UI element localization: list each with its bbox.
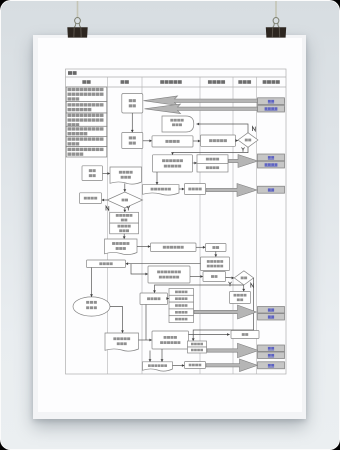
document 员工离职通知 (final)	[143, 362, 173, 371]
process box 经理会讨论	[201, 135, 236, 146]
process box 交接顺利可办理离职审批手续	[148, 266, 190, 283]
wire 人事审批 to checklist stack	[166, 297, 169, 300]
header 员工	[82, 80, 90, 84]
wire ellipse to 部门经理书面意见	[110, 307, 124, 334]
wire 人事审批 down	[145, 305, 147, 341]
process box 退条	[231, 331, 259, 339]
wire 发出辞退文件 to 社保停缴 stack	[193, 162, 198, 165]
process box 驳回申请	[80, 193, 102, 204]
label N (decision 2)	[106, 206, 109, 210]
wire decision N branch to 终止并通知部门	[197, 123, 249, 133]
document 员工离职通知	[143, 185, 180, 195]
fat arrow from related process link 1 into 辞退员工	[144, 96, 285, 106]
related process link 社保3 (blue)	[258, 345, 285, 352]
process box 相关部门核算	[230, 292, 251, 304]
wire 会签 to decision 3	[226, 276, 235, 279]
process box 处理意见	[152, 136, 193, 147]
fat arrow to link 档案	[206, 184, 257, 197]
binder clip right: hanging string	[275, 0, 277, 18]
wire decision Y branch down to 发出辞退文件	[171, 147, 248, 155]
wire 交接顺利 to 会签	[190, 275, 203, 278]
wire 申请表 down to decision 2	[123, 184, 126, 192]
decision diamond 审批 (resignation approval)	[107, 192, 143, 208]
reason cell 3 (员工 column)	[66, 113, 107, 126]
fat arrow from related process link 2 into 辞退员工	[145, 104, 285, 114]
document 员工离职期预告表	[105, 239, 138, 255]
header 总经理	[238, 80, 251, 84]
white paper sheet	[38, 38, 302, 413]
fat arrow to link 档案 (final)	[206, 359, 258, 372]
related process link 档案 (blue)	[258, 186, 285, 193]
label Y (decision 3)	[229, 282, 232, 286]
reason cell 2 (员工 column)	[66, 102, 107, 114]
wire 离职通知 to 记入档案 (final)	[173, 364, 185, 367]
wire decision3 down to 相关部门核算	[242, 285, 245, 292]
wire stack down to 预告表	[123, 234, 126, 239]
reason cell 6 (员工 column)	[66, 147, 107, 157]
process box 记入档案 (final)	[185, 362, 206, 369]
wire 书面意见 to 处理意见	[143, 139, 152, 142]
reason cell 4 (员工 column)	[66, 126, 107, 136]
stack 社保停缴 / 计发补偿金	[197, 155, 228, 172]
header 关联流程	[263, 80, 280, 84]
wire 工作交接 down to ellipse	[90, 268, 93, 297]
reason cell 1 (员工 column)	[66, 87, 107, 102]
label Y (decision 1)	[242, 147, 245, 151]
process box 书面意见	[122, 133, 143, 149]
label Y (decision 2)	[127, 206, 130, 210]
wire decision2 N to 驳回申请	[102, 199, 108, 202]
wire 预告表 to 发布离职报告	[137, 245, 151, 248]
wire decision2 Y down to 工作交接单 stack	[123, 208, 126, 212]
wire 书面意见 down to 离职通知	[149, 351, 152, 362]
wire 签署意见 down to 离职通知	[161, 349, 164, 362]
decision diamond 审批 (manager approval)	[238, 133, 258, 148]
paper backing sheet	[33, 35, 306, 419]
process box 签署意见离职审批手续	[152, 331, 189, 349]
related process link 结算流程 (blue)	[258, 105, 285, 112]
ellipse 交接中第30日	[73, 297, 110, 316]
wire 辞退员工 to 书面意见	[131, 113, 134, 133]
wire 员工离职通知 to 记入档案	[179, 188, 185, 191]
wire 员工辞职 to 员工离职申请表	[103, 172, 111, 175]
stack 社保停缴/档案调出/离职面谈/结算薪金/服装收回	[169, 289, 194, 323]
header 行政人事部	[160, 80, 182, 84]
fat arrow to links 社保/工资	[229, 155, 259, 168]
stack 拟定工作交接单 / 提前通知工作日	[110, 212, 139, 234]
wire 通知 down to 若有协办部门	[214, 252, 217, 258]
process box 若有协办部门时则通知	[201, 257, 230, 271]
wire decision3 N right-down to lower row	[192, 278, 254, 341]
wire 签署意见 to 退条	[189, 333, 230, 336]
related process link 社保 (blue)	[258, 154, 285, 161]
process box 发出辞退文件并送达员工	[153, 155, 193, 172]
process box 人事审批	[140, 293, 168, 305]
label N (decision 3)	[251, 283, 254, 287]
document 员工离职申请表	[110, 167, 142, 184]
header 部门	[121, 80, 129, 84]
process box 通知	[206, 244, 227, 252]
title text 离职	[68, 71, 77, 75]
fat arrow to links 社保/工资 (HR settle)	[194, 305, 257, 319]
reason cell 5 (员工 column)	[66, 136, 107, 146]
decision diamond 审批 (countersign approval)	[234, 271, 253, 285]
table outer border and title row 离职	[66, 69, 287, 374]
wire 书面意见 to 签署意见	[139, 339, 153, 342]
wire 经理会讨论 to decision 1	[235, 139, 238, 142]
wire decision3 Y left to 人事审批	[153, 285, 243, 293]
binder clip right: dark body	[266, 27, 286, 37]
table column lines	[108, 77, 257, 374]
binder clip right: wire handle loop	[273, 18, 279, 28]
wire 发布离职报告 to 通知	[196, 246, 206, 249]
label N (decision 1)	[253, 127, 256, 131]
related process link 社保2 (blue)	[258, 307, 285, 314]
fat arrow to links 社保/工资 (final)	[207, 343, 259, 358]
related process link 工资结算 (blue)	[258, 161, 285, 168]
wire junction down to 交接顺利可办理	[131, 264, 148, 276]
binder clip left: dark body	[67, 27, 87, 37]
binder clip left: wire handle loop	[74, 18, 80, 28]
related process link 档案2 (blue)	[258, 362, 285, 369]
process box 会签	[203, 272, 226, 282]
document 部门经理书面意见	[105, 333, 139, 351]
process box 辞退员工	[122, 94, 143, 114]
delay shape 终止并通知部门	[162, 116, 194, 132]
process box 员工辞职	[82, 166, 103, 181]
process box 发布离职报告	[151, 243, 197, 252]
header 职能部门	[208, 80, 225, 84]
related process link 工资2 (blue)	[258, 314, 285, 321]
wire 处理意见 to 经理会讨论	[193, 140, 201, 143]
related process link 工资 (blue)	[258, 98, 285, 105]
binder clip left: hanging string	[77, 0, 79, 18]
process box 记入档案	[185, 184, 206, 195]
wire 若有协办部门 to 工作交接	[126, 262, 201, 265]
related process link 工资3 (blue)	[258, 352, 285, 359]
process box 工作交接	[87, 260, 126, 268]
stack 社保停缴 / 计发薪金 (final)	[188, 341, 207, 353]
wire 发出辞退文件 down to 员工离职通知	[156, 172, 159, 185]
